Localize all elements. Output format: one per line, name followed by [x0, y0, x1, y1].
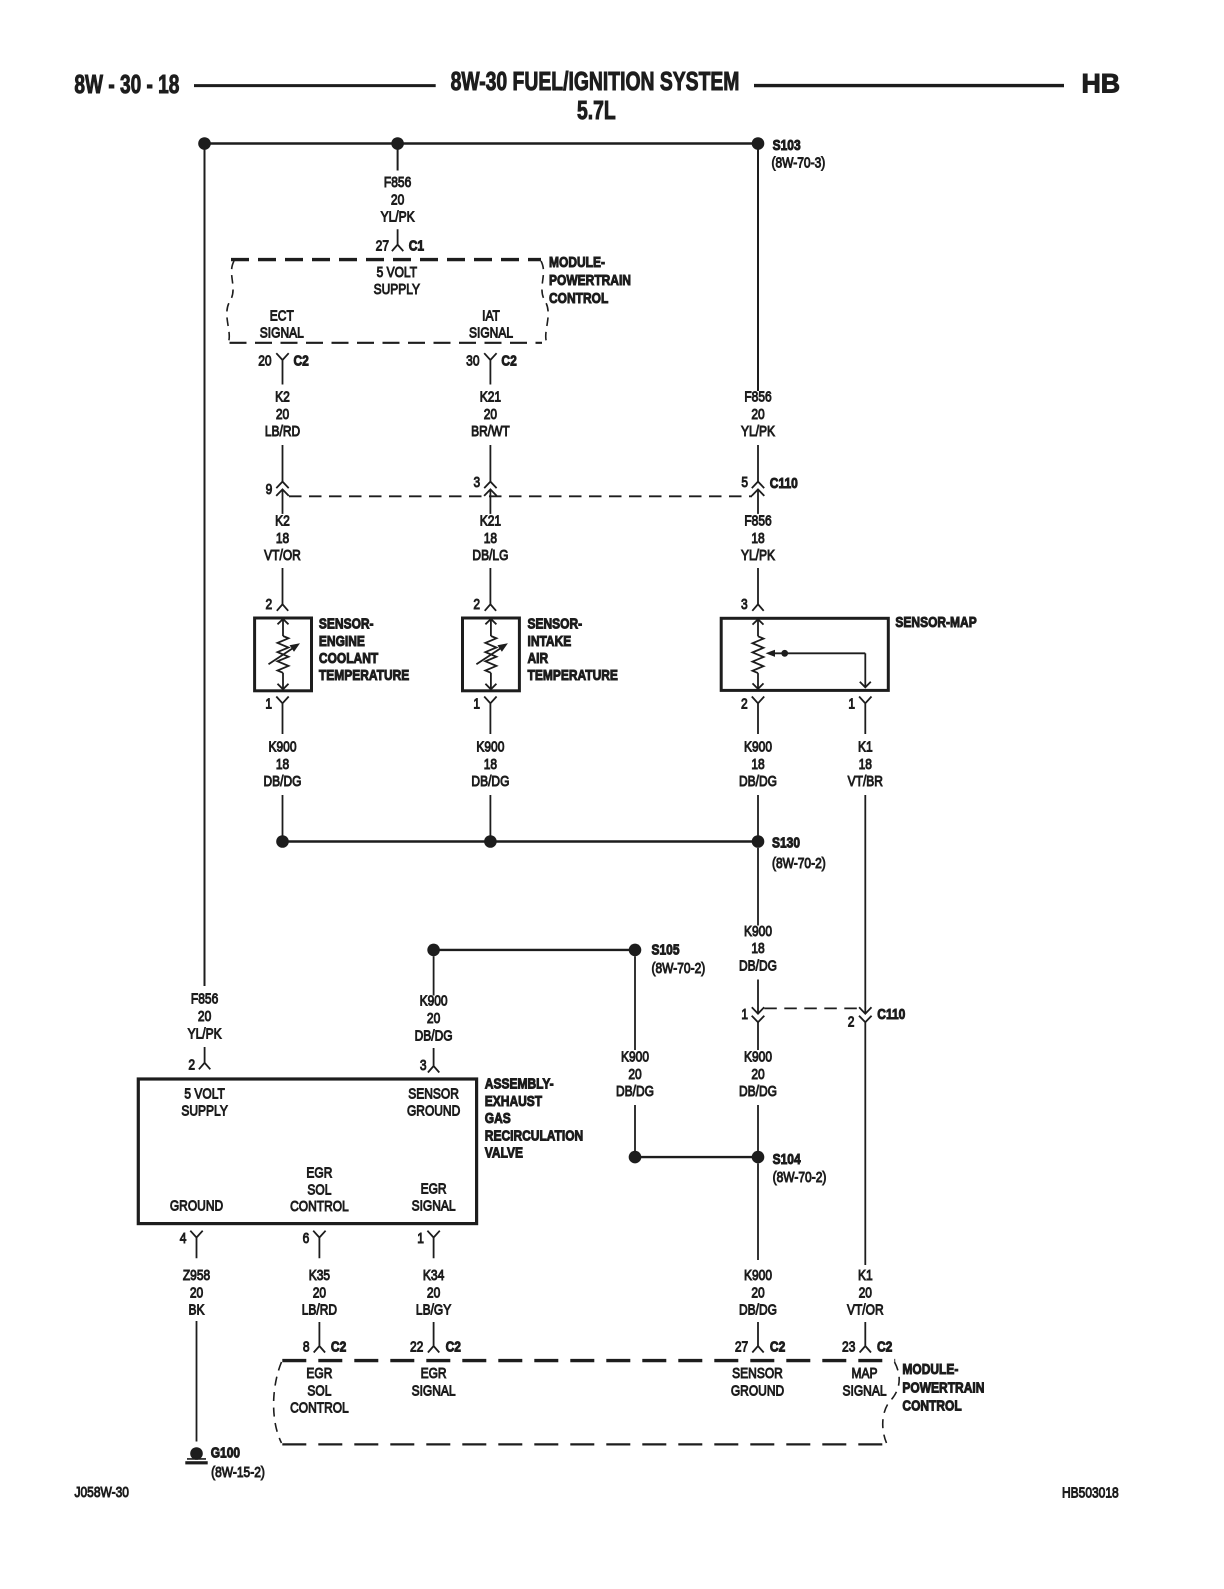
thermistor element inside IAT sensor	[490, 619, 492, 636]
svg-text:COOLANT: COOLANT	[319, 650, 379, 667]
svg-text:SIGNAL: SIGNAL	[469, 324, 513, 341]
svg-text:20: 20	[427, 1284, 441, 1301]
svg-text:K900: K900	[420, 992, 448, 1009]
svg-text:5: 5	[741, 474, 748, 491]
svg-text:SIGNAL: SIGNAL	[842, 1382, 886, 1399]
wire top bus F856 from S103	[205, 142, 759, 144]
svg-text:20: 20	[427, 1010, 441, 1027]
svg-text:K900: K900	[744, 738, 772, 755]
svg-text:GROUND: GROUND	[407, 1102, 460, 1119]
connector C2 pin 20 (ECT signal)	[276, 353, 288, 384]
svg-text:DB/DG: DB/DG	[263, 773, 301, 790]
svg-text:DB/DG: DB/DG	[616, 1083, 654, 1100]
svg-text:LB/GY: LB/GY	[416, 1301, 451, 1318]
module U1 MODULE-POWERTRAIN CONTROL dashed box top edge	[231, 258, 541, 261]
wire K2 below C110	[282, 489, 284, 514]
svg-text:27: 27	[735, 1338, 748, 1355]
svg-text:S105: S105	[652, 941, 680, 958]
svg-text:K900: K900	[476, 738, 504, 755]
connector C2 pin 30 (IAT signal)	[484, 353, 496, 384]
svg-text:18: 18	[276, 530, 289, 547]
svg-text:TEMPERATURE: TEMPERATURE	[319, 667, 409, 684]
wire K21 below C110	[489, 489, 491, 514]
wire F856 to C110	[757, 445, 759, 482]
svg-text:K1: K1	[858, 1267, 873, 1284]
svg-text:SIGNAL: SIGNAL	[412, 1197, 456, 1214]
wire K900 into S104 left	[634, 1105, 636, 1157]
svg-text:G100: G100	[211, 1444, 240, 1461]
svg-text:20: 20	[198, 1008, 212, 1025]
svg-text:20: 20	[313, 1284, 327, 1301]
wire K900 below S130	[757, 848, 759, 926]
assembly EGR valve box	[138, 1079, 476, 1224]
splice S104	[752, 1151, 765, 1164]
svg-text:LB/RD: LB/RD	[302, 1301, 338, 1318]
connector C1 pin 27 into PCM	[392, 229, 403, 251]
svg-text:(8W-70-2): (8W-70-2)	[773, 1169, 827, 1186]
svg-text:3: 3	[474, 474, 481, 491]
svg-text:SENSOR-: SENSOR-	[319, 615, 374, 632]
connector pin 1 of MAP sensor	[859, 697, 871, 735]
svg-text:(8W-70-3): (8W-70-3)	[772, 154, 826, 171]
svg-text:POWERTRAIN: POWERTRAIN	[902, 1379, 984, 1396]
splice S103	[752, 137, 765, 150]
svg-text:ECT: ECT	[270, 307, 294, 324]
svg-text:1: 1	[473, 695, 480, 712]
svg-text:20: 20	[751, 1284, 765, 1301]
module U1 PCM bottom dashed box right edge	[883, 1362, 899, 1443]
svg-text:POWERTRAIN: POWERTRAIN	[549, 272, 631, 289]
wire K21 to C110	[489, 445, 491, 482]
svg-text:1: 1	[265, 695, 272, 712]
resistor element inside MAP sensor	[757, 619, 759, 636]
svg-text:C2: C2	[446, 1338, 462, 1355]
svg-text:18: 18	[751, 756, 764, 773]
svg-text:J058W-30: J058W-30	[75, 1484, 130, 1501]
node splice junction middle (397.6,143.5)	[391, 137, 404, 150]
svg-text:20: 20	[628, 1066, 642, 1083]
svg-text:CONTROL: CONTROL	[902, 1397, 961, 1414]
dashed line in-line connector C110 row 2	[764, 1007, 859, 1009]
wire splice bus S104	[635, 1156, 758, 1158]
svg-text:F856: F856	[744, 512, 771, 529]
svg-text:18: 18	[751, 530, 764, 547]
svg-text:CONTROL: CONTROL	[549, 290, 608, 307]
svg-text:BR/WT: BR/WT	[471, 423, 510, 440]
svg-text:3: 3	[741, 596, 748, 613]
in-line connector C110 pin 5	[752, 482, 765, 496]
svg-text:EXHAUST: EXHAUST	[485, 1093, 543, 1110]
in-line connector C110 pin 3	[484, 482, 497, 496]
module U1 dashed box bottom edge	[230, 342, 543, 344]
svg-text:MODULE-: MODULE-	[549, 254, 605, 271]
svg-text:S104: S104	[773, 1151, 801, 1168]
svg-text:DB/DG: DB/DG	[739, 773, 777, 790]
svg-text:20: 20	[484, 406, 498, 423]
svg-text:5 VOLT: 5 VOLT	[184, 1085, 224, 1102]
svg-text:20: 20	[751, 1066, 765, 1083]
svg-text:8W-30 FUEL/IGNITION SYSTEM: 8W-30 FUEL/IGNITION SYSTEM	[451, 66, 740, 95]
wire F856 from S103 down	[757, 144, 759, 392]
module U1 dashed box left edge	[227, 261, 234, 342]
svg-text:F856: F856	[191, 990, 218, 1007]
svg-text:DB/LG: DB/LG	[472, 547, 508, 564]
wire K900 to C110 pin 1	[757, 980, 759, 1014]
svg-text:SOL: SOL	[307, 1181, 331, 1198]
svg-text:F856: F856	[744, 388, 771, 405]
svg-text:MODULE-: MODULE-	[902, 1361, 958, 1378]
connector pin 3 of EGR valve	[428, 1048, 439, 1073]
svg-text:18: 18	[751, 940, 764, 957]
svg-text:SENSOR: SENSOR	[408, 1085, 459, 1102]
connector pin 1 of IAT sensor	[484, 697, 496, 735]
svg-text:(8W-70-2): (8W-70-2)	[652, 960, 706, 977]
wire K900 into C2 pin 27	[752, 1322, 763, 1353]
svg-text:20: 20	[258, 352, 272, 369]
wire K900 below S104 to C2	[757, 1163, 759, 1260]
svg-text:5 VOLT: 5 VOLT	[377, 264, 417, 281]
module U1 PCM bottom dashed box bottom edge	[282, 1443, 883, 1445]
wire K35 into C2 pin 8	[314, 1322, 325, 1353]
svg-text:DB/DG: DB/DG	[471, 773, 509, 790]
svg-text:27: 27	[376, 237, 389, 254]
svg-text:Z958: Z958	[183, 1267, 210, 1284]
svg-text:SENSOR-MAP: SENSOR-MAP	[895, 614, 976, 631]
svg-text:18: 18	[484, 756, 497, 773]
svg-text:YL/PK: YL/PK	[381, 208, 415, 225]
module U1 PCM bottom dashed box top edge	[282, 1359, 895, 1362]
wire K900 IAT to S130	[489, 795, 491, 842]
svg-text:23: 23	[842, 1338, 855, 1355]
svg-text:20: 20	[751, 406, 765, 423]
svg-text:VALVE: VALVE	[485, 1144, 523, 1161]
wiper arm inside MAP sensor	[766, 650, 776, 657]
svg-text:2: 2	[266, 596, 273, 613]
svg-text:C110: C110	[877, 1006, 905, 1023]
wire K21 into IAT sensor pin 2	[489, 568, 491, 604]
svg-text:DB/DG: DB/DG	[739, 957, 777, 974]
svg-text:18: 18	[484, 530, 497, 547]
wire F856 below C110	[757, 489, 759, 514]
svg-text:8W - 30 - 18: 8W - 30 - 18	[74, 69, 179, 99]
svg-text:2: 2	[188, 1056, 195, 1073]
svg-text:VT/OR: VT/OR	[847, 1301, 884, 1318]
svg-text:K900: K900	[744, 1048, 772, 1065]
wire K1 into C2 pin 23	[860, 1322, 871, 1353]
svg-text:SUPPLY: SUPPLY	[181, 1102, 227, 1119]
svg-text:AIR: AIR	[528, 650, 549, 667]
svg-text:YL/PK: YL/PK	[741, 423, 775, 440]
svg-text:K21: K21	[480, 512, 501, 529]
svg-text:DB/DG: DB/DG	[415, 1027, 453, 1044]
ground G100	[190, 1447, 203, 1460]
svg-text:C1: C1	[409, 237, 425, 254]
svg-text:30: 30	[466, 352, 480, 369]
connector pin 6 of EGR valve	[313, 1231, 325, 1259]
svg-text:C2: C2	[501, 352, 517, 369]
svg-text:INTAKE: INTAKE	[528, 633, 572, 650]
sensor RT1 SENSOR-ENGINE COOLANT TEMPERATURE box	[255, 618, 312, 691]
in-line connector C110 pin 2	[859, 1007, 872, 1022]
svg-text:K1: K1	[858, 738, 873, 755]
svg-text:6: 6	[303, 1230, 310, 1247]
wire K34 into C2 pin 22	[428, 1322, 439, 1353]
svg-text:GROUND: GROUND	[731, 1382, 784, 1399]
wire stub below middle junction	[397, 144, 399, 171]
wire K1 from MAP pin 1 down to C110	[864, 795, 866, 1014]
svg-text:ENGINE: ENGINE	[319, 633, 365, 650]
svg-text:C2: C2	[331, 1338, 347, 1355]
svg-text:1: 1	[848, 695, 855, 712]
node junction S105 left	[427, 944, 440, 957]
svg-text:C2: C2	[877, 1338, 893, 1355]
svg-text:IAT: IAT	[482, 307, 500, 324]
svg-text:5.7L: 5.7L	[577, 95, 616, 124]
sensor U2 SENSOR-MAP box	[721, 618, 888, 690]
wire K900 from S105 down to EGR	[433, 956, 435, 995]
node junction S130 middle	[484, 835, 497, 848]
svg-text:8: 8	[303, 1338, 310, 1355]
svg-text:K900: K900	[744, 923, 772, 940]
svg-text:SIGNAL: SIGNAL	[412, 1382, 456, 1399]
wire K900 ECT to S130	[282, 795, 284, 842]
dashed line in-line connector C110 row 1	[289, 495, 752, 497]
header right rule	[754, 84, 1064, 87]
svg-text:20: 20	[190, 1284, 204, 1301]
svg-text:K900: K900	[268, 738, 296, 755]
svg-text:SENSOR-: SENSOR-	[528, 615, 583, 632]
svg-text:C2: C2	[770, 1338, 786, 1355]
wire F856 into MAP sensor pin 3	[757, 568, 759, 604]
svg-text:2: 2	[473, 596, 480, 613]
svg-text:CONTROL: CONTROL	[290, 1399, 349, 1416]
svg-text:MAP: MAP	[851, 1365, 877, 1382]
svg-text:GROUND: GROUND	[170, 1197, 223, 1214]
svg-text:ASSEMBLY-: ASSEMBLY-	[485, 1075, 554, 1092]
svg-text:SIGNAL: SIGNAL	[260, 324, 304, 341]
svg-text:HB503018: HB503018	[1062, 1484, 1119, 1501]
svg-text:SUPPLY: SUPPLY	[374, 281, 420, 298]
svg-text:20: 20	[391, 191, 405, 208]
svg-text:VT/BR: VT/BR	[848, 773, 883, 790]
splice S105	[629, 944, 642, 957]
wire K900 below C110 pin 1	[757, 1022, 759, 1050]
svg-text:S103: S103	[773, 137, 801, 154]
svg-text:2: 2	[741, 695, 748, 712]
wire K900 into S104	[757, 1105, 759, 1157]
svg-text:EGR: EGR	[306, 1365, 332, 1382]
svg-text:GAS: GAS	[485, 1110, 511, 1127]
svg-text:22: 22	[410, 1338, 423, 1355]
svg-text:(8W-70-2): (8W-70-2)	[772, 855, 826, 872]
svg-text:YL/PK: YL/PK	[741, 547, 775, 564]
svg-text:YL/PK: YL/PK	[188, 1025, 222, 1042]
sensor RT2 SENSOR-INTAKE AIR TEMPERATURE box	[463, 618, 520, 691]
wire K2 into ECT sensor pin 2	[282, 568, 284, 604]
svg-text:VT/OR: VT/OR	[264, 547, 301, 564]
svg-text:K2: K2	[275, 388, 290, 405]
svg-text:9: 9	[266, 481, 273, 498]
connector pin 2 of EGR valve	[199, 1047, 210, 1069]
svg-text:4: 4	[180, 1230, 187, 1247]
svg-text:1: 1	[741, 1006, 748, 1023]
svg-text:EGR: EGR	[421, 1365, 447, 1382]
svg-text:EGR: EGR	[306, 1164, 332, 1181]
wire Z958 down to G100	[196, 1321, 198, 1442]
svg-text:K34: K34	[423, 1267, 445, 1284]
wire K1 below C110 down to label	[864, 1022, 866, 1265]
svg-text:K900: K900	[621, 1048, 649, 1065]
svg-text:3: 3	[420, 1057, 427, 1074]
in-line connector C110 pin 9	[276, 482, 289, 496]
node splice junction left (204.5,143.5)	[198, 137, 211, 150]
svg-text:K900: K900	[744, 1267, 772, 1284]
node junction S130 left	[276, 835, 289, 848]
connector pin 4 of EGR valve	[190, 1231, 202, 1259]
svg-text:20: 20	[859, 1284, 873, 1301]
svg-text:C110: C110	[770, 475, 798, 492]
wire K900 MAP to S130	[757, 795, 759, 842]
svg-text:HB: HB	[1082, 68, 1121, 98]
svg-text:DB/DG: DB/DG	[739, 1083, 777, 1100]
svg-text:K35: K35	[309, 1267, 330, 1284]
node junction S104 left	[629, 1151, 642, 1164]
svg-text:SENSOR: SENSOR	[732, 1365, 783, 1382]
svg-text:BK: BK	[188, 1301, 204, 1318]
svg-text:CONTROL: CONTROL	[290, 1198, 349, 1215]
in-line connector C110 pin 1	[752, 1007, 765, 1022]
svg-text:2: 2	[848, 1013, 855, 1030]
wire splice bus S105	[434, 949, 635, 951]
svg-text:DB/DG: DB/DG	[739, 1301, 777, 1318]
wire splice bus S130	[283, 840, 759, 842]
wire K900 from S105 right down	[634, 956, 636, 1050]
svg-text:LB/RD: LB/RD	[265, 423, 301, 440]
svg-text:F856: F856	[384, 174, 411, 191]
svg-text:TEMPERATURE: TEMPERATURE	[528, 667, 618, 684]
svg-text:18: 18	[276, 756, 289, 773]
module U1 dashed box right edge	[541, 261, 548, 342]
svg-text:(8W-15-2): (8W-15-2)	[211, 1464, 265, 1481]
connector pin 2 of ECT sensor	[277, 604, 288, 611]
svg-text:S130: S130	[772, 834, 800, 851]
svg-text:20: 20	[276, 406, 290, 423]
splice S130	[752, 835, 765, 848]
svg-text:SOL: SOL	[307, 1382, 331, 1399]
connector pin 1 of ECT sensor	[276, 697, 288, 735]
connector pin 3 of MAP sensor	[752, 604, 763, 611]
module U1 PCM bottom dashed box left edge	[274, 1362, 282, 1443]
svg-text:RECIRCULATION: RECIRCULATION	[485, 1127, 583, 1144]
svg-text:EGR: EGR	[421, 1180, 447, 1197]
svg-text:K2: K2	[275, 512, 290, 529]
connector pin 2 of MAP sensor	[752, 697, 764, 735]
header left rule	[194, 84, 436, 87]
svg-text:K21: K21	[480, 388, 501, 405]
wire K2 to C110	[282, 445, 284, 482]
svg-text:C2: C2	[294, 352, 310, 369]
connector pin 2 of IAT sensor	[485, 604, 496, 611]
svg-text:1: 1	[417, 1230, 424, 1247]
svg-text:18: 18	[859, 756, 872, 773]
wire F856 left from top bus down to EGR	[204, 144, 206, 987]
connector pin 1 of EGR valve	[427, 1231, 439, 1259]
thermistor element inside ECT sensor	[282, 619, 284, 636]
